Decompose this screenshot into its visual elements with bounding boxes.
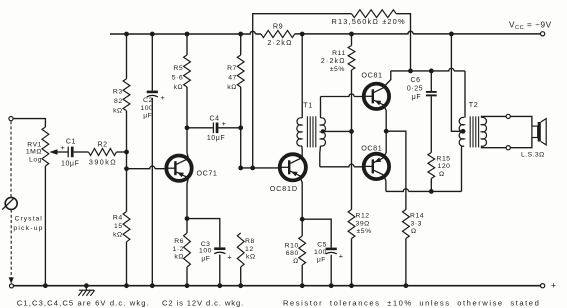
wire R6 bottom lead (186, 267, 188, 286)
junction base node (124, 166, 129, 171)
svg-text:10μF: 10μF (61, 161, 79, 168)
svg-text:100: 100 (314, 249, 327, 256)
wire C2 top lead (151, 34, 153, 91)
transformer T1 secondary winding (321, 118, 326, 146)
svg-text:680: 680 (286, 250, 299, 257)
wire emitter to C3 (187, 219, 220, 248)
svg-text:2·2kΩ: 2·2kΩ (321, 58, 346, 65)
wire C1 to R2 (74, 151, 89, 153)
junction emitters/R14 (384, 129, 389, 134)
loudspeaker (532, 126, 538, 137)
wire T2 secondary top (482, 116, 506, 117)
junction tap/winding (321, 129, 325, 133)
svg-text:10μF: 10μF (207, 135, 225, 142)
svg-text:R15: R15 (437, 155, 451, 162)
transformer T2 primary winding (459, 117, 464, 146)
resistor R15 (428, 153, 435, 179)
svg-text:47: 47 (228, 75, 237, 82)
svg-text:+: + (160, 93, 165, 102)
wire input to RV1 (13, 119, 45, 127)
svg-text:R7: R7 (227, 65, 237, 72)
svg-text:C4: C4 (209, 116, 219, 123)
wire filtered supply rail (R9 left node) (110, 31, 261, 34)
svg-text:Ω: Ω (293, 258, 299, 265)
svg-text:120: 120 (438, 163, 451, 170)
junction rail/R10 (300, 283, 305, 288)
wire T1 secondary bottom to OC81 base (319, 146, 322, 167)
wire C3 bottom lead (219, 255, 221, 286)
wire C4 line left (187, 127, 213, 129)
wire RV1 bottom lead (44, 166, 46, 286)
svg-text:R12: R12 (356, 213, 370, 220)
wire R11 top lead (351, 34, 353, 46)
wire emitters to R14 (386, 131, 406, 209)
wire R7 to base node (240, 87, 242, 168)
junction rail/RV1 (43, 283, 48, 288)
svg-text:1·2: 1·2 (173, 246, 184, 253)
terminal + right (541, 284, 545, 288)
junction rail/R12 (349, 283, 354, 288)
resistor R12 (348, 210, 355, 239)
transformer T1 core (306, 116, 308, 147)
junction rail/R14 (404, 283, 409, 288)
svg-text:C1: C1 (66, 139, 76, 146)
wire C6 to R15 (430, 96, 432, 152)
svg-text:82: 82 (114, 98, 123, 105)
transformer T2 core (469, 116, 471, 147)
junction rail/T2 centre-tap feed (449, 32, 454, 37)
junction rail/C5 (329, 283, 334, 288)
wire R5 to collector (186, 87, 188, 128)
wire OC81D base line (241, 167, 279, 169)
transistor OC71 (165, 156, 191, 181)
wire OC81 lower collector to T2 (384, 177, 386, 192)
svg-text:Ω: Ω (411, 228, 417, 235)
svg-text:kΩ: kΩ (174, 254, 184, 261)
svg-text:R13,560kΩ ±20%: R13,560kΩ ±20% (332, 17, 406, 26)
resistor R7 (237, 55, 244, 87)
svg-text:L.S.3Ω: L.S.3Ω (521, 152, 545, 159)
transistor OC81 (lower) (363, 154, 389, 179)
junction rail/R4 (124, 283, 129, 288)
junction tap/R11-R12 (349, 129, 354, 134)
svg-text:C6: C6 (410, 77, 420, 84)
wire T1 secondary top to OC81 base (320, 97, 322, 119)
svg-text:kΩ: kΩ (246, 254, 256, 261)
svg-text:100: 100 (140, 105, 153, 112)
resistor R2 (89, 149, 117, 156)
resistor R3 (123, 79, 130, 111)
svg-text:R14: R14 (410, 213, 424, 220)
svg-text:μF: μF (412, 94, 421, 101)
junction rail/R11 (349, 32, 354, 37)
wire OC81D emitter (300, 178, 302, 236)
wiper arrow RV1 (56, 151, 68, 153)
wire R7 top lead (240, 34, 242, 55)
svg-text:1MΩ: 1MΩ (26, 149, 42, 156)
svg-text:C5: C5 (317, 242, 327, 249)
wire OC71 base line (127, 166, 166, 169)
svg-text:12: 12 (245, 246, 254, 253)
junction rail/R5 (185, 32, 190, 37)
junction emitter/C3 (185, 216, 190, 221)
wire R12 bottom lead (351, 239, 353, 286)
svg-text:100: 100 (199, 247, 212, 254)
transformer T1 primary winding (297, 118, 302, 146)
svg-text:+: + (60, 143, 65, 152)
junction C6/collector line (429, 69, 434, 74)
svg-text:C1,C3,C4,C5 are 6V d.c. wkg: C1,C3,C4,C5 are 6V d.c. wkg. (17, 299, 150, 308)
capacitor C1 (67, 147, 69, 158)
svg-text:pick-up: pick-up (13, 225, 43, 232)
wire R10 bottom lead (301, 265, 303, 286)
wire R8 bottom lead (240, 267, 242, 286)
svg-text:OC81D: OC81D (270, 184, 298, 193)
capacitor C3 (214, 247, 225, 250)
capacitor C2 (147, 91, 158, 94)
wire OC81 top collector to T2 primary (384, 71, 391, 87)
svg-text:T2: T2 (469, 100, 479, 109)
svg-text:0·25: 0·25 (407, 86, 423, 93)
junction R15/collector line (429, 189, 434, 194)
svg-text:OC81: OC81 (361, 144, 382, 153)
svg-text:R2: R2 (97, 142, 107, 149)
terminal ground left (10, 284, 14, 288)
resistor R9 (261, 30, 295, 37)
svg-text:kΩ: kΩ (113, 108, 123, 115)
svg-text:±5%: ±5% (330, 66, 345, 73)
wire screened lead upper (dashed) (10, 121, 12, 197)
wire T1 primary top to rail (301, 34, 303, 118)
resistor R5 (184, 55, 191, 87)
junction rail/R7 (238, 32, 243, 37)
terminal Vcc -9V (541, 32, 545, 36)
svg-text:C2: C2 (143, 97, 153, 104)
wire C2 bottom lead (151, 98, 153, 286)
svg-text:R8: R8 (245, 238, 255, 245)
svg-text:R10: R10 (285, 242, 299, 249)
svg-text:Ω: Ω (439, 171, 445, 178)
wire emitters junction (384, 106, 386, 156)
junction C4/R7-R8 line (238, 125, 243, 130)
svg-text:39Ω: 39Ω (356, 220, 370, 227)
junction rail/C3 (217, 283, 222, 288)
wire OC71 emitter (187, 178, 188, 233)
potentiometer RV1 (42, 127, 49, 166)
svg-text:μF: μF (201, 256, 210, 263)
svg-text:C2 is 12V d.c. wkg.: C2 is 12V d.c. wkg. (162, 299, 244, 308)
ground (85, 286, 87, 291)
junction rail/R6 (185, 283, 190, 288)
wire R3 top lead (126, 34, 128, 79)
svg-text:μF: μF (143, 113, 152, 120)
svg-text:OC81: OC81 (361, 71, 382, 80)
terminal secondary top (506, 114, 510, 118)
svg-text:μF: μF (317, 256, 326, 263)
svg-text:+: + (227, 252, 232, 261)
resistor R8 (237, 233, 244, 267)
junction base/R7-R8 (238, 166, 243, 171)
svg-text:15: 15 (114, 223, 123, 230)
junction rail/ground stub (84, 283, 89, 288)
junction collector/R5/C4 (185, 125, 190, 130)
svg-text:OC71: OC71 (197, 169, 218, 178)
svg-text:R6: R6 (174, 238, 184, 245)
svg-text:5·6: 5·6 (172, 75, 183, 82)
svg-text:2·2kΩ: 2·2kΩ (267, 38, 292, 47)
wire emitter to C5 (302, 219, 331, 247)
wire -9V supply rail (295, 31, 541, 34)
wire T1 primary bottom to OC81D collector (301, 146, 303, 157)
wire R5 top lead (186, 34, 188, 55)
svg-text:T1: T1 (303, 101, 313, 110)
junction base/R13 feedback (250, 166, 255, 171)
wire to speaker top (511, 116, 532, 126)
junction rail/R3 (124, 32, 129, 37)
svg-text:kΩ: kΩ (227, 84, 237, 91)
svg-text:R4: R4 (113, 215, 123, 222)
svg-text:RV1: RV1 (27, 141, 42, 148)
svg-text:kΩ: kΩ (174, 84, 184, 91)
wire R3 to R4 (126, 111, 128, 212)
wire T2 secondary bottom (482, 146, 506, 148)
terminal input (9, 117, 13, 121)
junction T2 centre tap (461, 129, 466, 134)
wire to speaker bottom (511, 138, 532, 148)
svg-text:+: + (339, 252, 344, 261)
capacitor C6 (426, 91, 437, 93)
wire T1 centre tap (323, 130, 352, 132)
wire C4 line right (218, 127, 240, 129)
transistor OC81 (upper) (363, 84, 389, 109)
svg-text:R3: R3 (113, 89, 123, 96)
svg-text:3·3: 3·3 (411, 220, 422, 227)
svg-text:Resistor tolerances ±10% un: Resistor tolerances ±10% unless otherwis… (283, 299, 540, 308)
wire screened lead lower (dashed) (10, 210, 12, 279)
wire C6 top lead (430, 71, 432, 91)
svg-text:+: + (222, 119, 227, 128)
capacitor C4 (212, 123, 214, 134)
svg-text:R11: R11 (332, 50, 346, 57)
junction R13/collector line (408, 69, 413, 74)
junction R2/R3 (124, 150, 129, 155)
wire R15 bottom lead (430, 179, 432, 192)
svg-text:kΩ: kΩ (113, 232, 123, 239)
transistor OC81D (279, 154, 306, 180)
svg-text:+: + (551, 281, 557, 291)
crystal pick-up (5, 197, 17, 209)
wire T2 centre tap from rail (451, 34, 462, 131)
wire R11 to centre tap to R12 (351, 70, 353, 210)
junction rail/C2 (150, 283, 155, 288)
svg-text:390kΩ: 390kΩ (89, 158, 117, 167)
capacitor C5 (326, 248, 337, 251)
wire R13 loop (to OC81D base) (253, 14, 411, 168)
wire R14 bottom lead (405, 239, 407, 286)
transformer T2 secondary winding (482, 117, 487, 146)
resistor R14 (403, 210, 410, 239)
resistor R10 (299, 236, 306, 265)
resistor R11 (348, 46, 355, 71)
wire OC71 collector (187, 128, 188, 159)
junction emitter/C5 (300, 217, 305, 222)
terminal secondary bottom (506, 146, 510, 150)
junction rail/R8 (238, 283, 243, 288)
wire C5 bottom lead (330, 255, 332, 286)
resistor R4 (123, 212, 130, 242)
wire bottom rail (+) (14, 285, 541, 287)
svg-text:Log: Log (29, 157, 42, 164)
wire R2 to node (116, 151, 126, 153)
junction rail/C2 (150, 32, 155, 37)
svg-text:R5: R5 (173, 65, 183, 72)
svg-text:±5%: ±5% (357, 228, 372, 235)
resistor R13 (352, 10, 397, 18)
svg-text:R9: R9 (273, 22, 283, 31)
junction rail/T1 primary (300, 32, 305, 37)
wire R4 bottom lead (126, 242, 128, 286)
svg-text:Crystal: Crystal (15, 215, 43, 222)
resistor R6 (184, 233, 191, 267)
